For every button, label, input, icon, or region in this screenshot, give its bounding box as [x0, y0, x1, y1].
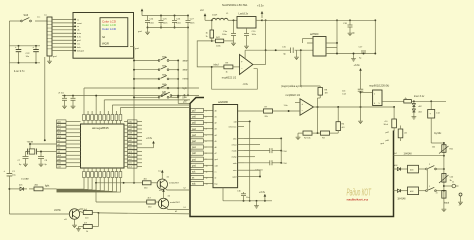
svg-text:gnd: gnd [129, 151, 132, 153]
svg-text:C1: C1 [12, 171, 16, 173]
svg-text:d02: d02 [418, 106, 422, 108]
svg-text:−: − [302, 109, 304, 113]
svg-text:r10: r10 [385, 121, 389, 123]
svg-text:10u: 10u [26, 56, 30, 58]
svg-text:amp+: amp+ [183, 60, 189, 62]
svg-text:C17: C17 [359, 46, 364, 48]
svg-text:C10: C10 [252, 31, 257, 33]
svg-text:+: + [302, 102, 304, 106]
svg-text:C20: C20 [450, 177, 455, 179]
svg-text:r0: r0 [436, 193, 439, 195]
svg-text:R9: R9 [226, 63, 230, 65]
svg-text:b1: b1 [175, 211, 178, 213]
svg-text:R7: R7 [265, 106, 269, 108]
svg-text:1N4148: 1N4148 [404, 154, 413, 156]
svg-text:d6: d6 [215, 147, 217, 149]
svg-text:vdd: vdd [233, 121, 236, 123]
svg-text:1N4148: 1N4148 [397, 199, 406, 201]
svg-text:C8: C8 [45, 160, 48, 162]
svg-text:gnd: gnd [138, 31, 142, 33]
svg-text:cs: cs [215, 171, 217, 173]
svg-text:C1b: C1b [237, 191, 242, 193]
svg-text:1k: 1k [206, 36, 209, 38]
svg-text:R4: R4 [342, 124, 346, 126]
svg-text:k1: k1 [184, 207, 187, 209]
svg-text:9p: 9p [359, 58, 362, 60]
svg-text:hd: hd [102, 35, 106, 39]
svg-text:b2: b2 [395, 153, 398, 155]
svg-text:1k: 1k [226, 72, 229, 74]
svg-text:ad7660: ad7660 [310, 33, 319, 36]
svg-text:r42: r42 [404, 133, 408, 135]
svg-text:pa4: pa4 [192, 129, 197, 131]
svg-text:reset: reset [77, 22, 82, 25]
svg-text:4r9: 4r9 [342, 126, 346, 129]
svg-text:SA7: SA7 [162, 91, 167, 94]
svg-text:gnd: gnd [135, 48, 139, 50]
svg-text:clamp: clamp [231, 157, 236, 159]
svg-text:adc: adc [192, 184, 197, 186]
svg-text:mcp6022 1/2: mcp6022 1/2 [286, 94, 301, 97]
svg-text:560: 560 [148, 207, 152, 209]
svg-text:rs: rs [77, 18, 79, 21]
svg-text:d0: d0 [215, 110, 217, 112]
svg-text:input: input [444, 202, 449, 205]
svg-text:k2: k2 [184, 188, 187, 190]
svg-text:mmbt2907: mmbt2907 [169, 181, 180, 184]
svg-text:data: data [77, 32, 82, 35]
svg-text:4k7: 4k7 [148, 198, 152, 200]
svg-text:c9 10n: c9 10n [58, 93, 64, 95]
svg-text:jgax: jgax [182, 97, 188, 99]
svg-text:d7: d7 [215, 153, 217, 155]
svg-text:4k6: 4k6 [144, 179, 148, 181]
svg-text:C14: C14 [436, 113, 441, 115]
svg-text:C14: C14 [342, 94, 347, 96]
svg-text:10k: 10k [432, 147, 435, 149]
svg-text:+3.3v: +3.3v [146, 137, 153, 140]
svg-text:10e: 10e [342, 90, 346, 92]
svg-text:reference: reference [229, 126, 237, 129]
svg-text:pa1: pa1 [192, 147, 197, 149]
svg-text:mcp6022 1/2: mcp6022 1/2 [222, 76, 237, 79]
svg-text:C18: C18 [343, 23, 348, 25]
svg-text:d5: d5 [215, 141, 217, 143]
svg-text:d04: d04 [410, 191, 414, 193]
svg-text:refout: refout [232, 144, 237, 147]
svg-text:10uH: 10uH [212, 15, 218, 17]
svg-text:d04: d04 [394, 165, 398, 167]
svg-text:bsy: bsy [215, 184, 218, 186]
svg-text:d2: d2 [215, 123, 217, 125]
svg-text:radiokot.ru: radiokot.ru [347, 198, 369, 202]
svg-text:aina: aina [233, 170, 238, 172]
svg-text:d4: d4 [215, 135, 217, 137]
svg-text:1k: 1k [86, 231, 88, 233]
svg-text:R3: R3 [322, 138, 326, 140]
svg-text:gnd: gnd [77, 40, 81, 42]
svg-text:-3.3v: -3.3v [243, 83, 249, 86]
svg-text:inbuf: inbuf [214, 64, 219, 66]
svg-text:R2 10k: R2 10k [304, 138, 312, 140]
svg-text:8p: 8p [353, 33, 356, 35]
svg-text:vcc: vcc [44, 15, 47, 17]
svg-text:gnd: gnd [215, 159, 218, 161]
svg-text:amp-: amp- [183, 70, 188, 72]
svg-text:vt3: vt3 [64, 218, 68, 221]
svg-text:4: 4 [374, 103, 376, 105]
svg-text:Lxxb3.3v: Lxxb3.3v [239, 13, 249, 16]
svg-text:gnd: gnd [192, 165, 197, 167]
svg-text:atmega8535: atmega8535 [92, 126, 109, 130]
svg-text:C15: C15 [282, 46, 287, 48]
svg-text:vcc: vcc [37, 17, 41, 19]
svg-text:mmbt2907: mmbt2907 [170, 201, 181, 204]
svg-text:+: + [4, 170, 6, 173]
svg-text:pa5: pa5 [192, 123, 197, 125]
svg-text:560: 560 [144, 188, 148, 190]
svg-text:+3.3v: +3.3v [354, 64, 361, 67]
svg-text:220: 220 [85, 217, 89, 219]
svg-text:C22: C22 [26, 53, 31, 55]
svg-text:vcc: vcc [200, 9, 205, 12]
svg-text:Gy/10x: Gy/10x [434, 133, 442, 135]
svg-text:pa0: pa0 [192, 153, 197, 155]
svg-text:gnd: gnd [53, 56, 57, 58]
svg-text:+: + [33, 46, 35, 49]
svg-text:d3: d3 [215, 129, 217, 131]
svg-text:R8: R8 [325, 89, 329, 91]
svg-text:imer 3.1v: imer 3.1v [414, 95, 425, 98]
svg-text:WQR: WQR [102, 41, 109, 45]
svg-text:pa2: pa2 [192, 141, 197, 143]
svg-text:100n: 100n [176, 22, 181, 24]
svg-text:−: − [241, 66, 243, 70]
svg-text:100n: 100n [163, 22, 168, 24]
svg-text:gnd: gnd [58, 155, 61, 157]
svg-text:+3.3v: +3.3v [259, 191, 266, 194]
svg-text:100n: 100n [149, 22, 154, 24]
svg-text:res: res [77, 43, 80, 46]
svg-text:light: light [45, 185, 50, 188]
svg-text:clk: clk [77, 30, 81, 32]
svg-text:vt2: vt2 [168, 195, 172, 198]
svg-text:(подстройка нуля): (подстройка нуля) [281, 85, 302, 88]
svg-text:cs: cs [77, 26, 79, 28]
svg-text:pd7: pd7 [386, 132, 390, 134]
svg-text:c3374i: c3374i [54, 210, 61, 212]
svg-text:ss: ss [192, 178, 195, 180]
svg-text:vcc: vcc [158, 171, 161, 173]
svg-text:d05: d05 [19, 185, 23, 187]
svg-text:li-on 3.7v: li-on 3.7v [14, 69, 25, 73]
svg-text:C1H: C1H [283, 151, 288, 153]
svg-text:L1: L1 [226, 13, 229, 15]
svg-text:8p: 8p [45, 164, 48, 166]
svg-text:refin: refin [233, 137, 237, 140]
svg-text:d1: d1 [215, 117, 217, 119]
svg-text:100k: 100k [216, 45, 221, 47]
svg-text:1b: 1b [206, 33, 209, 35]
svg-text:C7: C7 [18, 160, 21, 162]
svg-text:avc: avc [58, 148, 61, 150]
svg-text:Color LCD: Color LCD [102, 27, 117, 31]
svg-text:rd: rd [215, 177, 217, 180]
svg-text:pa3: pa3 [192, 135, 197, 137]
svg-text:1n41AE: 1n41AE [21, 178, 29, 181]
svg-text:vt1: vt1 [167, 176, 171, 179]
svg-text:8p: 8p [284, 53, 287, 55]
svg-text:sck: sck [192, 172, 196, 174]
svg-text:100n: 100n [252, 34, 257, 36]
svg-text:led gnd: led gnd [77, 51, 85, 53]
svg-text:pa6: pa6 [192, 117, 197, 119]
svg-text:C1H: C1H [283, 163, 288, 165]
svg-text:8p: 8p [19, 164, 22, 166]
svg-text:J1: J1 [452, 182, 455, 184]
svg-text:1.6v: 1.6v [284, 105, 289, 107]
svg-text:ainb: ainb [233, 163, 237, 165]
svg-text:20k: 20k [265, 116, 269, 118]
svg-text:A01: A01 [35, 184, 39, 187]
svg-text:1: 1 [429, 186, 431, 188]
svg-text:+3.3v: +3.3v [257, 4, 264, 8]
svg-text:gnd: gnd [381, 143, 385, 145]
svg-text:menu: menu [183, 79, 189, 81]
svg-text:1M: 1M [325, 93, 328, 95]
svg-text:C27: C27 [190, 19, 195, 21]
svg-text:led+: led+ [77, 47, 82, 49]
svg-text:R21: R21 [450, 149, 455, 151]
svg-text:C24: C24 [149, 19, 154, 21]
svg-text:30uk: 30uk [384, 124, 388, 126]
svg-text:C25: C25 [163, 19, 168, 21]
svg-text:d04: d04 [418, 111, 422, 113]
svg-text:C1w: C1w [223, 31, 228, 33]
svg-text:100n: 100n [222, 34, 227, 36]
svg-text:vdd: vdd [215, 165, 218, 167]
svg-text:+: + [241, 59, 243, 63]
svg-text:10n: 10n [246, 197, 249, 199]
svg-text:agnd: agnd [232, 177, 236, 179]
svg-text:1: 1 [374, 94, 376, 96]
svg-text:mcp601(1226.0k): mcp601(1226.0k) [369, 84, 389, 88]
svg-text:NxAP2030L1-50-TE1: NxAP2030L1-50-TE1 [222, 3, 248, 7]
svg-text:100n: 100n [190, 22, 195, 24]
svg-text:pa7: pa7 [192, 111, 197, 113]
svg-text:d04: d04 [410, 169, 414, 171]
svg-text:+: + [15, 46, 17, 49]
svg-text:+: + [430, 113, 432, 116]
svg-text:10u: 10u [12, 175, 16, 177]
svg-text:mode: mode [232, 151, 237, 153]
svg-text:C26: C26 [176, 19, 181, 21]
svg-text:gnd: gnd [192, 159, 197, 161]
svg-text:avcc: avcc [129, 148, 133, 150]
svg-text:2: 2 [429, 164, 431, 166]
svg-text:vcc: vcc [159, 190, 162, 192]
svg-text:pa4: pa4 [184, 100, 188, 102]
svg-text:SA6: SA6 [24, 14, 29, 17]
svg-text:pd0: pd0 [386, 140, 390, 142]
svg-text:3.3v: 3.3v [77, 37, 82, 39]
svg-text:light: light [183, 87, 188, 90]
svg-text:5: 5 [379, 103, 381, 105]
svg-text:ads8280: ads8280 [218, 100, 229, 104]
